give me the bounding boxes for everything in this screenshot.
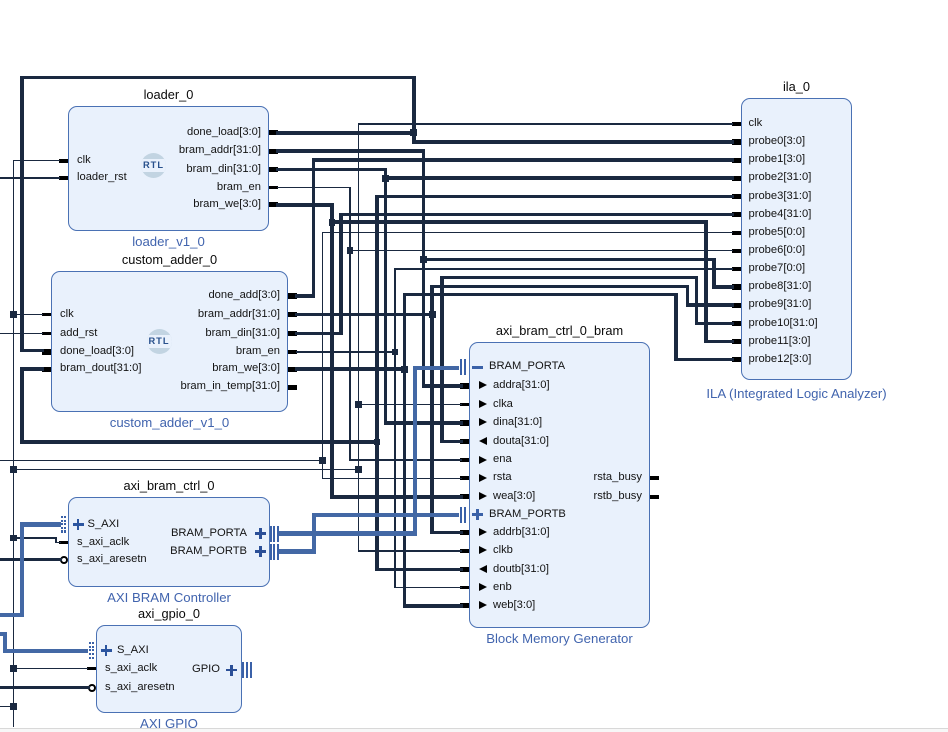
pin loader_0 input pin loader_rst bbox=[59, 176, 68, 180]
axi_gpio_0 GPIO expander + bbox=[226, 669, 237, 672]
wire feedback rise to adder bbox=[20, 369, 24, 442]
wire into enb bbox=[394, 587, 461, 588]
wire into probe11 bbox=[704, 340, 734, 344]
block axi_bram_ctrl_0_bram: body bbox=[469, 342, 650, 628]
wire bram_en out of adder bbox=[296, 351, 396, 352]
wire S_AXI exit left bbox=[0, 613, 24, 617]
wire PORTB into bram bbox=[312, 513, 459, 517]
pin custom_adder_0 input pin bram_dout[31:0] bbox=[42, 367, 51, 372]
wire adder bram_en vertical bbox=[394, 269, 395, 588]
canvas bottom border bbox=[0, 728, 948, 729]
pin axi_bram_ctrl_0 input pin s_axi_aclk bbox=[59, 541, 68, 545]
pin axi_bram_ctrl_0_bram pin douta[31:0] bbox=[460, 439, 469, 444]
wire douta to probe10 jog bbox=[440, 276, 698, 280]
pin axi_bram_ctrl_0_bram pin rsta bbox=[460, 476, 469, 480]
pin doutb[31:0] direction arrow bbox=[479, 565, 487, 573]
pin ila_0 input pin probe2[31:0] bbox=[732, 176, 741, 181]
wire S_AXI vertical bbox=[20, 525, 24, 616]
pin custom_adder_0 input pin done_load[3:0] bbox=[42, 349, 51, 354]
wire aresetn to bram ctrl bbox=[0, 558, 62, 561]
junction bram_we junction bbox=[329, 219, 336, 226]
wire doutb feedback rail bbox=[20, 440, 379, 444]
pin enb direction arrow bbox=[479, 583, 487, 591]
pin ila_0 input pin probe0[3:0] bbox=[732, 139, 741, 144]
block axi_gpio_0: body bbox=[96, 625, 242, 713]
junction adder bram_addr junction bbox=[429, 311, 436, 318]
wire PORTA into bram bbox=[413, 366, 459, 370]
pin BRAM_PORTB label bbox=[489, 508, 566, 520]
wire rst to ila probe5 bbox=[322, 232, 733, 233]
junction adder bram_we junction bbox=[401, 366, 408, 373]
pin web[3:0] direction arrow bbox=[479, 601, 487, 609]
wire clk into adder bbox=[13, 314, 43, 315]
junction clk junction right trunk bbox=[355, 466, 362, 473]
junction done_load junction bbox=[410, 129, 417, 136]
pin axi_bram_ctrl_0_bram output pin rsta_busy bbox=[650, 476, 659, 480]
block axi_bram_ctrl_0_bram: type label bbox=[360, 631, 760, 646]
block axi_gpio_0: instance name label bbox=[0, 606, 369, 621]
wire into probe12 bbox=[674, 358, 734, 362]
axi_gpio_0 interface pin GPIO label bbox=[192, 663, 220, 675]
wire rst from left edge bbox=[0, 460, 323, 461]
wire into probe10 bbox=[695, 322, 734, 326]
pin ila_0 input pin probe11[3:0] bbox=[732, 339, 741, 344]
block custom_adder_0: type label bbox=[0, 415, 370, 430]
pin BRAM_PORTA label bbox=[489, 360, 565, 372]
pin custom_adder_0 output pin bram_in_temp[31:0] bbox=[288, 385, 297, 390]
wire gpio S_AXI jog bbox=[3, 634, 7, 650]
junction bram_en junction bbox=[347, 247, 354, 254]
wire loader_rst bbox=[0, 177, 60, 178]
block loader_0: body bbox=[68, 106, 269, 231]
wire bram_din to ila probe2 bbox=[384, 176, 734, 180]
axi_bram_ctrl_0 pin S_AXI label bbox=[88, 518, 120, 530]
pin axi_bram_ctrl_0_bram pin ena bbox=[460, 458, 469, 462]
wire doutb to ila probe3 bbox=[375, 195, 734, 199]
axi_gpio_0 pin S_AXI label bbox=[117, 644, 149, 656]
wire clk into gpio aclk bbox=[13, 668, 88, 669]
junction clk junction at gpio bbox=[10, 665, 17, 672]
BRAM_PORTA collapse − bbox=[472, 366, 483, 369]
BRAM_PORTB expander + bbox=[472, 513, 483, 516]
wire done_load top rail bbox=[20, 76, 416, 80]
wire add_rst bbox=[0, 333, 43, 334]
axi_bram_ctrl_0 BRAM_PORTA connection marker bbox=[270, 526, 272, 542]
wire to ila probe7 bbox=[394, 268, 732, 269]
wire into web bbox=[403, 604, 463, 608]
wire probe8 drop bbox=[712, 260, 716, 288]
axi_bram_ctrl_0 interface pin S_AXI marker bbox=[61, 516, 63, 518]
wire bram_we out of adder bbox=[295, 367, 406, 371]
pin axi_bram_ctrl_0_bram pin addra[31:0] bbox=[460, 383, 469, 388]
pin douta[31:0] direction arrow bbox=[479, 437, 487, 445]
pin clka direction arrow bbox=[479, 400, 487, 408]
pin custom_adder_0 input pin add_rst bbox=[42, 332, 51, 336]
pin custom_adder_0 output pin done_add[3:0] bbox=[288, 293, 297, 298]
pin axi_bram_ctrl_0_bram pin addrb[31:0] bbox=[460, 530, 469, 535]
pin ila_0 input pin probe9[31:0] bbox=[732, 303, 741, 308]
wire bram_din out of adder bbox=[295, 332, 343, 336]
axi_gpio_0 interface pin S_AXI marker bbox=[89, 642, 91, 644]
pin ena direction arrow bbox=[479, 456, 487, 464]
wire PORTA out of ctrl bbox=[279, 531, 417, 535]
junction clk junction at clka bbox=[355, 401, 362, 408]
wire done_load jog down to probe0 row bbox=[412, 133, 416, 142]
wire bram_addr into addra bbox=[422, 384, 463, 388]
wire clk into ctrl aclk bbox=[55, 542, 60, 543]
block axi_gpio_0: type label bbox=[0, 716, 369, 731]
axi_bram_ctrl_0 S_AXI expander + bbox=[73, 523, 84, 526]
wire done_add out of adder bbox=[295, 294, 315, 298]
wire clk exit left bbox=[0, 706, 14, 707]
wire done_add rise bbox=[312, 160, 316, 296]
wire into adder bram_dout bbox=[20, 367, 44, 371]
pin ila_0 input pin clk bbox=[732, 122, 741, 126]
axi_bram_ctrl_0_bram interface pin BRAM_PORTA marker bbox=[460, 359, 462, 375]
pin ila_0 input pin probe1[3:0] bbox=[732, 158, 741, 163]
block axi_bram_ctrl_0: instance name label bbox=[0, 478, 369, 493]
junction clk junction at adder bbox=[10, 311, 17, 318]
wire into addrb bbox=[430, 531, 462, 535]
wire done_add to ila probe1 bbox=[312, 158, 734, 162]
wire clk cross rail bbox=[13, 469, 360, 470]
pin loader_0 output pin bram_en bbox=[269, 186, 278, 190]
wire into probe8 bbox=[712, 285, 734, 289]
wire adder bram_din to ila probe4 bbox=[339, 213, 734, 217]
wire bram_we drop bbox=[330, 205, 334, 497]
wire bram_we out of loader bbox=[276, 203, 334, 207]
wire aresetn to gpio bbox=[0, 686, 90, 689]
wire adder bram_addr vertical bbox=[430, 286, 434, 532]
wire gpio S_AXI into block bbox=[3, 649, 89, 653]
pin custom_adder_0 input pin clk bbox=[42, 313, 51, 317]
pin custom_adder_0 output pin bram_we[3:0] bbox=[288, 367, 297, 372]
block loader_0: type label bbox=[0, 234, 369, 249]
wire bram_din out of loader bbox=[276, 168, 387, 172]
wire into probe9 bbox=[686, 303, 734, 307]
block axi_bram_ctrl_0: type label bbox=[0, 590, 369, 605]
wire bram_addr out of loader bbox=[276, 149, 425, 153]
block custom_adder_0: body bbox=[51, 271, 288, 412]
wire done_load into adder bbox=[20, 349, 44, 353]
junction clk junction at exit bbox=[10, 703, 17, 710]
wire bram_we into wea bbox=[330, 495, 463, 499]
pin ila_0 input pin probe3[31:0] bbox=[732, 194, 741, 199]
pin addra[31:0] direction arrow bbox=[479, 381, 487, 389]
wire douta out of bram bbox=[440, 440, 463, 444]
junction rst junction bbox=[319, 457, 326, 464]
wire probe11 drop bbox=[704, 222, 708, 341]
wire probe10 drop bbox=[695, 278, 699, 324]
pin loader_0 output pin bram_we[3:0] bbox=[269, 202, 278, 207]
pin custom_adder_0 output pin bram_din[31:0] bbox=[288, 331, 297, 336]
block ila_0: type label bbox=[597, 386, 948, 401]
pin loader_0 output pin done_load[3:0] bbox=[269, 130, 278, 135]
pin ila_0 input pin probe10[31:0] bbox=[732, 321, 741, 326]
wire doutb out of bram bbox=[375, 568, 463, 572]
pin wea[3:0] direction arrow bbox=[479, 492, 487, 500]
pin clkb direction arrow bbox=[479, 546, 487, 554]
wire adder bram_din rise bbox=[339, 215, 343, 334]
axi_bram_ctrl_0 BRAM_PORTB connection marker bbox=[270, 544, 272, 560]
block custom_adder_0: instance name label bbox=[0, 252, 370, 267]
wire done_load left drop bbox=[20, 78, 24, 351]
pin axi_bram_ctrl_0 input pin s_axi_aresetn (active-low bubble) bbox=[60, 556, 68, 564]
block axi_bram_ctrl_0_bram: instance name label bbox=[360, 323, 760, 338]
wire rst into rsta bbox=[322, 478, 462, 479]
pin axi_bram_ctrl_0_bram pin dina[31:0] bbox=[460, 420, 469, 425]
wire clk jog bbox=[55, 538, 56, 543]
wire bram_we branch to probe11 bbox=[330, 220, 708, 224]
pin ila_0 input pin probe6[0:0] bbox=[732, 249, 741, 253]
wire done_load rise to top rail bbox=[412, 78, 416, 133]
pin loader_0 output pin bram_addr[31:0] bbox=[269, 149, 278, 154]
custom_adder_0 RTL icon bbox=[147, 329, 172, 354]
pin axi_bram_ctrl_0_bram pin clkb bbox=[460, 549, 469, 553]
pin dina[31:0] direction arrow bbox=[479, 418, 487, 426]
pin ila_0 input pin probe12[3:0] bbox=[732, 357, 741, 362]
wire done_load to ila probe0 bbox=[412, 140, 734, 144]
pin rsta direction arrow bbox=[479, 474, 487, 482]
wire bram_din drop bbox=[384, 170, 388, 423]
wire PORTA vertical bbox=[413, 368, 417, 534]
wire clk into ila bbox=[358, 123, 733, 124]
wire bram_addr branch to probe8 bbox=[422, 258, 717, 262]
loader_0 RTL icon bbox=[141, 153, 166, 178]
pin ila_0 input pin probe4[31:0] bbox=[732, 212, 741, 217]
wire bram_din into dina bbox=[384, 421, 463, 425]
wire bram_en drop bbox=[349, 188, 350, 461]
pin axi_bram_ctrl_0_bram pin doutb[31:0] bbox=[460, 567, 469, 572]
axi_gpio_0 GPIO connection marker bbox=[242, 662, 244, 678]
wire gpio S_AXI from left bbox=[0, 632, 7, 636]
axi_bram_ctrl_0 interface pin BRAM_PORTB label bbox=[170, 545, 247, 557]
wire bram_addr out of adder bbox=[295, 313, 434, 317]
pin axi_bram_ctrl_0_bram output pin rstb_busy bbox=[650, 495, 659, 499]
block axi_bram_ctrl_0: body bbox=[68, 497, 270, 587]
junction doutb junction bbox=[374, 439, 381, 446]
junction clk junction at ctrl bbox=[10, 535, 17, 542]
wire clk into loader bbox=[13, 160, 60, 161]
wire bram_addr drop to addra bbox=[422, 151, 426, 386]
block loader_0: instance name label bbox=[0, 87, 369, 102]
pin ila_0 input pin probe8[31:0] bbox=[732, 284, 741, 289]
pin axi_gpio_0 input pin s_axi_aresetn (active-low bubble) bbox=[88, 684, 96, 692]
pin addrb[31:0] direction arrow bbox=[479, 528, 487, 536]
wire branch to probe9 bbox=[430, 285, 689, 289]
wire adder bram_we vertical bbox=[403, 294, 407, 605]
axi_bram_ctrl_0 interface pin BRAM_PORTA label bbox=[171, 527, 247, 539]
pin loader_0 input pin clk bbox=[59, 159, 68, 163]
wire PORTB out of ctrl bbox=[279, 549, 316, 553]
wire bram_en to ila probe6 bbox=[349, 250, 732, 251]
block ila_0: body bbox=[741, 98, 852, 380]
pin axi_bram_ctrl_0_bram pin clka bbox=[460, 403, 469, 407]
wire clk right trunk bbox=[358, 124, 359, 551]
wire clk left trunk bbox=[13, 161, 14, 727]
pin axi_gpio_0 input pin s_axi_aclk bbox=[87, 667, 96, 671]
wire S_AXI into ctrl bbox=[20, 522, 61, 526]
wire clk into clka bbox=[358, 404, 462, 405]
wire douta rise bbox=[440, 278, 444, 442]
wire PORTB vertical bbox=[312, 515, 316, 552]
junction bram_din junction bbox=[382, 175, 389, 182]
junction bram_addr junction bbox=[420, 256, 427, 263]
pin custom_adder_0 output pin bram_addr[31:0] bbox=[288, 312, 297, 317]
wire rst vertical bbox=[322, 233, 323, 479]
block ila_0: instance name label bbox=[597, 79, 948, 94]
pin loader_0 output pin bram_din[31:0] bbox=[269, 167, 278, 172]
pin ila_0 input pin probe5[0:0] bbox=[732, 231, 741, 235]
wire probe12 drop bbox=[674, 294, 678, 359]
wire clk into clkb bbox=[358, 550, 462, 551]
wire bram_en into ena bbox=[349, 459, 461, 460]
pin custom_adder_0 output pin bram_en bbox=[288, 350, 297, 354]
axi_bram_ctrl_0 BRAM_PORTB expander + bbox=[255, 550, 266, 553]
junction adder bram_en junction bbox=[392, 349, 399, 356]
pin axi_bram_ctrl_0_bram pin wea[3:0] bbox=[460, 494, 469, 499]
junction clk junction at cross rail bbox=[10, 466, 17, 473]
axi_bram_ctrl_0_bram interface pin BRAM_PORTB marker bbox=[460, 507, 462, 523]
axi_gpio_0 S_AXI expander + bbox=[101, 649, 112, 652]
axi_bram_ctrl_0 BRAM_PORTA expander + bbox=[255, 532, 266, 535]
wire probe9 drop bbox=[686, 286, 690, 305]
pin axi_bram_ctrl_0_bram pin web[3:0] bbox=[460, 603, 469, 608]
pin ila_0 input pin probe7[0:0] bbox=[732, 267, 741, 271]
wire done_load out of loader bbox=[276, 131, 416, 135]
wire bram_en out of loader bbox=[277, 187, 351, 188]
wire clk toward ctrl aclk bbox=[13, 537, 57, 538]
wire branch to probe12 bbox=[403, 293, 679, 297]
pin axi_bram_ctrl_0_bram pin enb bbox=[460, 586, 469, 590]
wire doutb vertical bbox=[375, 196, 379, 569]
